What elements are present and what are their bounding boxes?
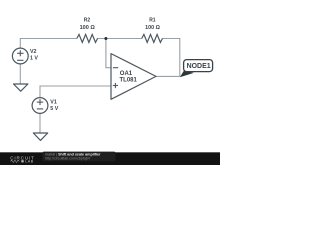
svg-text:LAB: LAB [25,160,34,164]
voltage source V2 [12,48,38,64]
svg-text:TL081: TL081 [120,78,138,84]
svg-text:100 Ω: 100 Ω [80,25,95,31]
ground below V1 [33,133,47,140]
resistor R1 [142,18,163,43]
svg-text:R1: R1 [149,18,156,24]
svg-text:http://circuitlab.com/c6pfq64: http://circuitlab.com/c6pfq64 [45,156,90,160]
wire: node A drop to op-amp inverting input [106,39,111,68]
V2 plus sign [17,52,23,54]
svg-text:1 V: 1 V [30,55,38,61]
junction node A (R2/R1/inverting-input tie point) [104,37,107,40]
svg-text:5 V: 5 V [50,106,58,112]
wire: V2 bottom terminal to ground [19,64,21,84]
node NODE1 flag [180,60,213,78]
wire: V2 top terminal up and right to R2 left lead [20,39,77,49]
svg-text:NODE1: NODE1 [187,61,211,70]
resistor R2 [77,18,98,43]
NODE1 flag pointer tail [180,70,194,77]
footer bar [0,152,220,165]
svg-text:OA1: OA1 [120,71,133,77]
wire: R1 right lead and drop to output node [162,39,179,77]
op-amp OA1 [111,54,156,100]
op-amp triangle body [111,54,156,100]
V1 plus sign [37,101,43,103]
wire: R2 right lead to R1 left lead [97,38,141,40]
svg-text:V2: V2 [30,49,37,55]
V1 minus sign [37,108,43,110]
wire: op-amp output to node NODE1 [156,75,180,77]
svg-text:R2: R2 [84,18,91,24]
wire: V1 top terminal up and right to op-amp non-inverting input [40,86,111,98]
svg-text:V1: V1 [50,99,57,105]
voltage source V1 [32,98,59,114]
V2 minus sign [17,59,23,61]
svg-text:100 Ω: 100 Ω [145,25,160,31]
wire: V1 bottom terminal to ground [39,113,41,133]
op-amp inverting pin minus sign [113,67,118,69]
NODE1 flag box [184,60,213,72]
ground below V2 [14,84,28,91]
footer credit background [43,152,116,162]
op-amp non-inverting pin plus sign [113,85,118,87]
